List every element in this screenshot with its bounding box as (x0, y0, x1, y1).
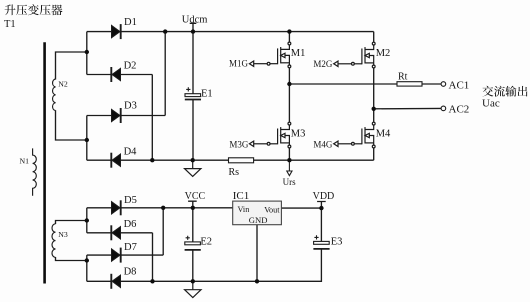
junction VCC-D7 (161, 206, 165, 210)
transformer T1 core (43, 42, 46, 283)
transistor M4 (334, 122, 375, 148)
svg-text:E1: E1 (201, 88, 213, 99)
wire M2 drain lead (373, 32, 375, 43)
wire VCC rail (87, 207, 233, 209)
wire IC1 GND lead (256, 225, 258, 282)
junction bottom-E2 (191, 279, 195, 283)
capacitor E1 (185, 87, 201, 99)
wire E3 top lead (320, 208, 322, 241)
junction VDD (319, 206, 323, 210)
diode D5 (112, 200, 121, 215)
svg-text:D4: D4 (124, 146, 138, 157)
terminal AC1 (441, 82, 446, 87)
wire D2 to bottom rail connector (151, 75, 153, 161)
resistor Rt (397, 82, 422, 86)
wire D6 to bottom rail connector (152, 233, 154, 281)
wire D7 to VCC rail connector (162, 208, 164, 255)
svg-text:D7: D7 (124, 242, 137, 253)
junction N2 bottom (85, 138, 89, 142)
svg-text:VDD: VDD (313, 191, 335, 202)
svg-text:AC1: AC1 (449, 80, 470, 92)
transistor M3 (249, 122, 290, 148)
svg-text:AC2: AC2 (449, 104, 470, 116)
svg-text:E2: E2 (200, 237, 212, 248)
svg-text:D2: D2 (124, 61, 137, 72)
junction rail-M3 (287, 158, 291, 162)
capacitor E3 (313, 235, 329, 249)
svg-text:N2: N2 (58, 80, 68, 89)
ground symbol bottom rail (185, 281, 201, 297)
wire left vertical D1-D2 branch (86, 32, 88, 75)
diode D2 (111, 67, 120, 82)
junction N3 bottom (85, 258, 89, 262)
winding N3 (52, 224, 56, 258)
svg-text:Udcm: Udcm (182, 15, 208, 26)
wire N2 top lead (56, 52, 87, 80)
junction bottom-D6 (150, 279, 154, 283)
junction bus-M1 (287, 29, 291, 33)
svg-text:M3G: M3G (229, 139, 249, 149)
junction bottom-GND lead (255, 279, 259, 283)
svg-text:M4G: M4G (313, 140, 333, 150)
svg-text:E3: E3 (331, 236, 343, 247)
junction rail2 (372, 107, 376, 111)
terminal AC2 (441, 106, 446, 111)
resistor Rs (229, 158, 254, 163)
wire D7 cathode line (87, 254, 163, 256)
wire M3 source lead (288, 148, 290, 160)
wire left vertical D5-D6 branch (86, 208, 88, 233)
junction N2 top (85, 50, 89, 54)
diode D4 (111, 153, 120, 168)
wire M1 drain lead (288, 32, 290, 43)
wire E2 top lead (192, 208, 194, 242)
junction N3 top (85, 218, 89, 222)
wire E1 top lead (192, 32, 194, 94)
svg-text:M3: M3 (291, 129, 306, 140)
svg-text:VCC: VCC (185, 191, 206, 202)
svg-text:D3: D3 (124, 101, 137, 112)
wire IC1 Vout to VDD (281, 207, 321, 209)
junction rail1 (287, 82, 291, 86)
IC1 regulator body (233, 201, 282, 225)
label transformer title (5, 4, 63, 15)
node VCC terminal stub (188, 201, 197, 208)
svg-text:M2: M2 (376, 48, 391, 59)
ground symbol main rail (185, 160, 201, 176)
wire D3 to top bus connector (164, 32, 166, 116)
wire left vertical D7-D8 branch (86, 255, 88, 281)
svg-text:GND: GND (249, 215, 268, 225)
svg-text:D5: D5 (124, 195, 137, 206)
wire rail1 to Rt (289, 83, 397, 85)
svg-text:N3: N3 (58, 230, 68, 239)
junction rail-D2 (150, 158, 154, 162)
winding N1 (33, 148, 37, 195)
wire D6 anode line (87, 232, 153, 234)
transistor M2 (334, 42, 375, 68)
svg-text:M1: M1 (291, 48, 306, 59)
junction VCC-E2 (191, 206, 195, 210)
wire left vertical D3-D4 branch (86, 116, 88, 161)
wire Rt to AC1 (422, 83, 441, 85)
junction bus-D3 (163, 29, 167, 33)
svg-text:M1G: M1G (229, 59, 249, 69)
svg-text:Urs: Urs (283, 177, 296, 187)
wire ground rail with Rs (87, 159, 374, 161)
junction bus-E1 (191, 29, 195, 33)
wire D3 cathode line (87, 115, 165, 117)
svg-text:M2G: M2G (313, 59, 333, 69)
wire M1 source to M3 drain leg (288, 68, 290, 123)
wire N3 bottom lead (56, 257, 87, 261)
capacitor E2 (185, 236, 201, 250)
node Urs arrow (287, 160, 292, 175)
svg-text:D8: D8 (124, 267, 137, 278)
svg-text:T1: T1 (4, 19, 16, 30)
svg-text:Vout: Vout (264, 205, 280, 214)
wire N2 bottom lead (56, 110, 87, 140)
svg-text:Uac: Uac (482, 98, 500, 110)
diode D7 (112, 248, 121, 263)
wire M4 source lead (373, 148, 375, 160)
diode D6 (111, 225, 120, 240)
node VDD terminal stub (317, 202, 326, 209)
svg-text:IC1: IC1 (233, 190, 250, 202)
svg-text:Vin: Vin (238, 205, 250, 214)
junction rail-ground (191, 158, 195, 162)
svg-text:M4: M4 (376, 129, 391, 140)
wire rail2 to AC2 (374, 107, 442, 109)
label AC output (482, 86, 527, 97)
diode D3 (112, 108, 121, 123)
transistor M1 (249, 42, 290, 68)
wire E1 bottom lead (192, 100, 194, 161)
wire E2 bottom lead (192, 250, 194, 281)
svg-text:D6: D6 (124, 219, 137, 230)
svg-text:D1: D1 (124, 17, 137, 28)
diode D1 (112, 24, 121, 39)
svg-text:Rt: Rt (398, 71, 408, 82)
wire top DC bus Udcm (87, 31, 374, 33)
wire D2 anode line (87, 74, 153, 76)
node Udcm terminal stub (190, 23, 197, 31)
wire M2 source to M4 drain leg (373, 68, 375, 123)
diode D8 (111, 274, 120, 289)
wire bottom ground rail to E3 (87, 249, 322, 281)
winding N2 (53, 79, 56, 111)
svg-text:Rs: Rs (229, 167, 240, 178)
svg-text:N1: N1 (20, 157, 30, 166)
wire N3 top lead (56, 221, 87, 225)
